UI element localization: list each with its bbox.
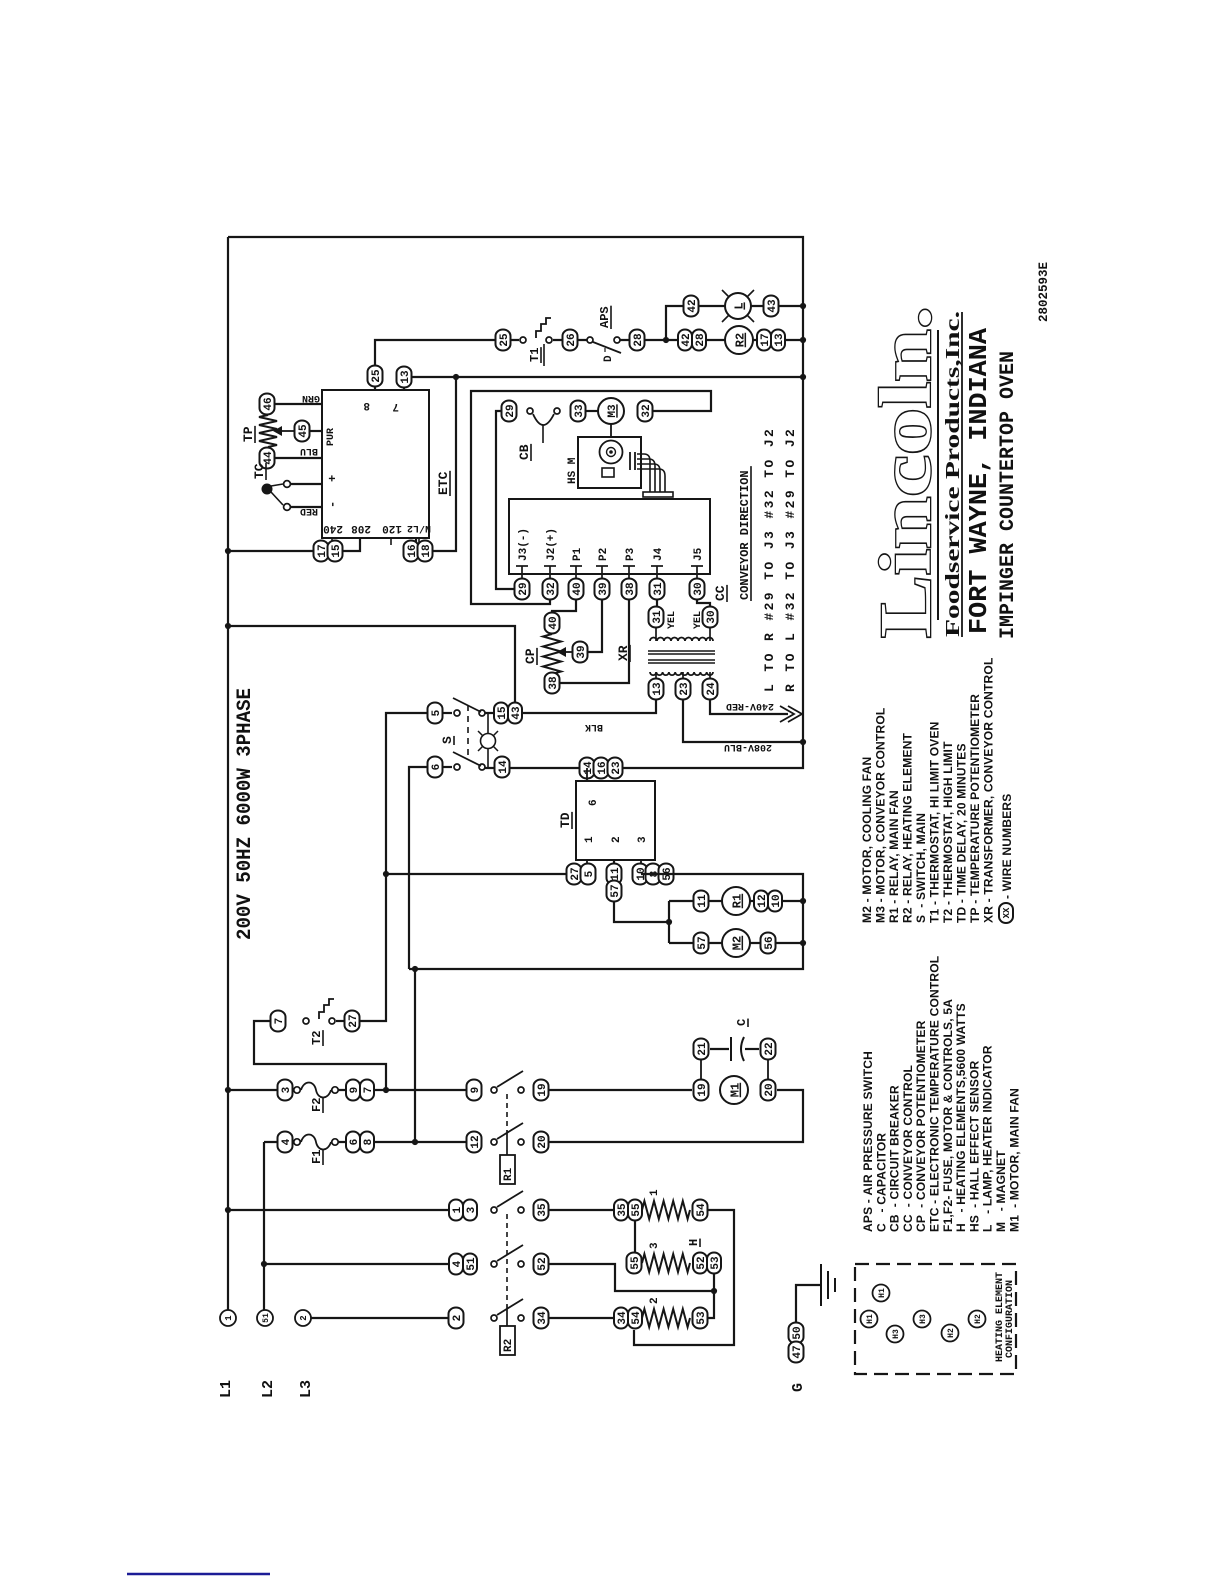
terminal box 11 TD (607, 864, 622, 885)
hall sensor chip (602, 468, 614, 477)
wire cap 22 right (745, 1048, 759, 1050)
R2 row1 boxes (449, 1200, 463, 1221)
svg-text:5: 5 (431, 709, 443, 716)
svg-text:38: 38 (548, 676, 560, 690)
wire 26 to APS (553, 339, 587, 341)
terminal box 29 under CC pin J3(-) (515, 579, 530, 600)
terminal box 40 under CC pin P1 (569, 579, 584, 600)
svg-text:240: 240 (323, 522, 343, 534)
junction T2 F2 (383, 1087, 389, 1093)
svg-text:43: 43 (767, 299, 779, 313)
wire R2 row2 from L2 (264, 1263, 449, 1265)
svg-text:T1 - THERMOSTAT, HI LIMIT OVEN: T1 - THERMOSTAT, HI LIMIT OVEN (928, 721, 942, 923)
R1 contact row2 box (467, 1132, 482, 1153)
terminal box 14 (495, 757, 510, 778)
svg-text:35: 35 (537, 1203, 549, 1217)
terminal box 15 (328, 541, 343, 562)
terminal boxes 27 5 (567, 864, 582, 885)
svg-text:H1: H1 (878, 1288, 887, 1298)
fuse F1 (294, 1139, 300, 1145)
svg-text:T2: T2 (310, 1031, 324, 1045)
terminal box 32 under CC pin J2(+) (543, 579, 558, 600)
R2 row3 box (449, 1308, 464, 1329)
heating element 1 (642, 1201, 690, 1219)
svg-text:N/L2: N/L2 (407, 522, 431, 534)
R1 row2 blade (497, 1123, 523, 1139)
R1 row1 blade (497, 1071, 523, 1087)
terminal box 22 (761, 1039, 776, 1060)
thermostat T1 contacts (520, 337, 526, 343)
wire CC 38 to CP bottom (560, 599, 629, 683)
terminal box 46 (260, 394, 275, 415)
wire L1 to switch 15/43 (228, 626, 515, 707)
svg-text:12: 12 (470, 1135, 482, 1148)
svg-text:30: 30 (693, 582, 705, 595)
svg-text:CONFIGURATION: CONFIGURATION (1005, 1280, 1016, 1358)
svg-text:R1 - RELAY, MAIN FAN: R1 - RELAY, MAIN FAN (887, 790, 901, 923)
CC pin P1 (570, 565, 582, 567)
wire S6 to return bus (409, 767, 428, 969)
svg-text:H2: H2 (947, 1328, 956, 1338)
thermostat T1 stair symbol (536, 318, 551, 338)
svg-text:57: 57 (697, 936, 709, 949)
svg-text:TC: TC (252, 463, 267, 479)
junction rail 17/15 (225, 548, 231, 554)
svg-text:30: 30 (706, 610, 718, 623)
S mechanical link dashed (467, 705, 469, 760)
heating element 2 (642, 1309, 690, 1327)
ETC pin tick 120 (390, 538, 392, 545)
ETC pin tick N/L2 (418, 538, 420, 545)
potentiometer TP zigzag (259, 415, 277, 447)
svg-text:2: 2 (452, 1315, 464, 1322)
svg-text:18: 18 (421, 544, 433, 558)
svg-text:2: 2 (649, 1297, 661, 1304)
svg-text:31: 31 (653, 582, 665, 596)
R1 row2 contacts (491, 1139, 497, 1145)
thermostat T1 probe tick (543, 344, 545, 366)
svg-text:6: 6 (431, 764, 443, 771)
svg-text:46: 46 (263, 397, 275, 410)
wire ETC N/L2 pin to terminals 16 18 (404, 538, 416, 551)
blue footer line (127, 1573, 270, 1576)
svg-text:7: 7 (363, 1087, 375, 1094)
config circle H2 (942, 1325, 959, 1342)
svg-text:11: 11 (610, 867, 622, 881)
R2 link dashed (506, 1214, 508, 1305)
svg-text:120: 120 (382, 522, 402, 534)
svg-text:56: 56 (764, 936, 776, 949)
wire BLU terminal44 to ETC (275, 457, 322, 459)
junction M2 row return (800, 940, 806, 946)
svg-text:51: 51 (262, 1313, 271, 1323)
element2 boxes 34 54 (614, 1308, 628, 1329)
svg-text:R2: R2 (503, 1339, 515, 1352)
R1 row1 contacts (491, 1087, 497, 1093)
CP wiper arrow (557, 647, 566, 657)
transformer XR primary coil (650, 638, 713, 641)
wire top border to right-side bus (228, 237, 803, 768)
svg-text:CB: CB (517, 444, 532, 460)
wire R2 row1 from rail (228, 1209, 449, 1211)
switch S terminal box 5 (428, 703, 443, 724)
CC pin J3(-) (516, 565, 528, 567)
svg-text:51: 51 (466, 1257, 478, 1271)
S pole1 contacts (454, 710, 460, 716)
svg-text:XX: XX (1002, 907, 1012, 918)
S pole2 contacts (454, 764, 460, 770)
svg-text:CP: CP (523, 648, 538, 664)
svg-text:13: 13 (400, 370, 412, 384)
terminal box 40 CP (545, 613, 560, 634)
wire 5 to contact (443, 712, 452, 714)
svg-text:3: 3 (281, 1086, 293, 1093)
junction rail 626 (225, 623, 231, 629)
wire lamp branch (666, 306, 803, 340)
thermostat T2 stair symbol (319, 999, 334, 1019)
wire XR24 240V-RED (710, 699, 788, 714)
svg-text:M2 - MOTOR, COOLING FAN: M2 - MOTOR, COOLING FAN (860, 757, 874, 923)
R2 row2 out box (534, 1254, 549, 1275)
svg-text:1: 1 (584, 836, 596, 843)
svg-text:J2(+): J2(+) (546, 528, 558, 561)
terminal box 26 (563, 330, 578, 351)
svg-text:- WIRE NUMBERS: - WIRE NUMBERS (1000, 794, 1014, 899)
R2 row1 contacts (491, 1207, 497, 1213)
terminal box 43 (764, 296, 779, 317)
wire ETC pin7 net 13 (404, 377, 803, 390)
svg-text:3: 3 (637, 836, 649, 843)
svg-text:L2: L2 (260, 1380, 277, 1398)
svg-text:42: 42 (687, 299, 699, 312)
terminal box 31 under CC pin J4 (650, 579, 665, 600)
terminal box 17 (314, 541, 329, 562)
svg-text:19: 19 (697, 1083, 709, 1096)
wire 53 link (708, 1274, 714, 1318)
terminal box 39 under CC pin P2 (595, 579, 610, 600)
svg-text:P1: P1 (572, 547, 584, 561)
svg-text:5: 5 (584, 870, 596, 877)
svg-text:APS - AIR PRESSURE SWITCH: APS - AIR PRESSURE SWITCH (861, 1051, 875, 1232)
svg-text:1: 1 (224, 1315, 234, 1321)
CC pin P3 (623, 565, 635, 567)
motor M1 main fan (720, 1076, 748, 1104)
wire 52 to element3 (548, 1264, 714, 1291)
R2 row2 blade (497, 1245, 523, 1261)
terminal box 31 XR (649, 607, 664, 628)
svg-text:IMPINGER COUNTERTOP OVEN: IMPINGER COUNTERTOP OVEN (997, 351, 1020, 639)
wire XR 30 stub (709, 628, 711, 641)
HS ribbon wires (637, 454, 650, 492)
wire M3 to HS box (610, 424, 612, 437)
svg-text:H1: H1 (866, 1314, 875, 1324)
element1 box 54 (693, 1200, 708, 1221)
svg-text:25: 25 (371, 369, 383, 383)
svg-text:57: 57 (610, 884, 622, 897)
wire 21 down to 19 (700, 1059, 702, 1080)
svg-text:F1: F1 (310, 1150, 324, 1164)
svg-text:13: 13 (774, 333, 786, 347)
wire 6 to contact (443, 766, 452, 768)
terminal circle 51 (L2) (257, 1310, 273, 1326)
terminal box 47 G (789, 1342, 804, 1363)
svg-text:14: 14 (498, 760, 510, 774)
svg-text:L1: L1 (218, 1380, 235, 1398)
relay R2 label box (500, 1326, 515, 1355)
element3 boxes 52 53 (693, 1253, 707, 1274)
svg-text:43: 43 (511, 706, 523, 720)
svg-text:2: 2 (299, 1315, 309, 1320)
svg-text:11: 11 (697, 894, 709, 908)
fuse F2 (294, 1087, 300, 1093)
S pilot lamp (481, 734, 496, 749)
svg-text:53: 53 (696, 1311, 708, 1325)
svg-text:8: 8 (363, 1138, 375, 1145)
wire TD1 to T2 line (386, 873, 566, 875)
svg-text:7: 7 (392, 400, 399, 412)
terminal box 30 XR (703, 607, 718, 628)
junction rail R2row1 (225, 1207, 231, 1213)
heating element configuration box (855, 1264, 1016, 1374)
relay R1 label box (500, 1155, 515, 1184)
terminal box 27 T2 (345, 1011, 360, 1032)
wire 35 to element1 (548, 1209, 614, 1211)
svg-text:APS: APS (598, 306, 612, 328)
svg-text:P3: P3 (625, 547, 637, 561)
svg-text:H3: H3 (892, 1329, 901, 1339)
svg-text:23: 23 (611, 761, 623, 775)
wire XR23 208V-BLU (683, 699, 803, 742)
terminal circle 1 (L1) (220, 1310, 236, 1326)
HS connector bars (629, 452, 631, 470)
svg-text:GRN: GRN (302, 392, 320, 403)
svg-text:T2 - THERMOSTAT, HIGH LIMIT: T2 - THERMOSTAT, HIGH LIMIT (941, 741, 955, 923)
ETC pin tick 240 (331, 538, 333, 545)
terminal circle 2 (L3) (295, 1310, 311, 1326)
junction F1 riser (412, 1139, 418, 1145)
svg-text:S: S (440, 736, 455, 744)
svg-text:28: 28 (633, 333, 645, 347)
transformer XR secondary coil (650, 672, 713, 675)
svg-text:HS - HALL EFFECT SENSOR: HS - HALL EFFECT SENSOR (967, 1060, 981, 1232)
svg-text:40: 40 (548, 616, 560, 629)
junction heat branch split (663, 337, 669, 343)
svg-text:R TO L #32 TO J3 #29 TO J2: R TO L #32 TO J3 #29 TO J2 (783, 427, 798, 692)
svg-text:-: - (326, 501, 340, 508)
wire 27 up to S5 and TD tap (360, 713, 428, 1021)
S pole2 blade (453, 752, 481, 766)
svg-text:G: G (790, 1383, 807, 1392)
terminal boxes 9 7 F2 (346, 1080, 360, 1101)
terminal box 38 CP (545, 673, 560, 694)
svg-text:8: 8 (363, 399, 370, 411)
config circle H1 (861, 1311, 878, 1328)
svg-text:CB - CIRCUIT BREAKER: CB - CIRCUIT BREAKER (888, 1085, 902, 1232)
svg-text:27: 27 (348, 1014, 360, 1027)
svg-text:54: 54 (631, 1311, 643, 1325)
terminal box 19 M1 (694, 1080, 709, 1101)
terminal box 25 on ETC pin 8 (368, 366, 383, 387)
terminal box 56 M2 (761, 933, 776, 954)
HS sensor box (578, 437, 641, 488)
terminal box 39 CP (573, 642, 588, 663)
terminal boxes 42 28 R2coil (678, 330, 692, 351)
svg-text:HS M: HS M (567, 457, 579, 484)
wire ETC 208 pin to terminals 17 15 to L1 rail (228, 538, 360, 551)
terminal box 4 F1 (278, 1132, 293, 1153)
svg-text:22: 22 (764, 1042, 776, 1055)
terminal box 50 G (789, 1323, 804, 1344)
wire F1 row (264, 1141, 296, 1143)
svg-text:1: 1 (649, 1189, 661, 1196)
wire 33 to M3 (586, 410, 598, 412)
svg-text:R2 - RELAY, HEATING ELEMENT: R2 - RELAY, HEATING ELEMENT (901, 732, 915, 923)
R2 link solid (506, 1305, 508, 1326)
wire T2 loop (254, 1021, 386, 1090)
R1 link dashed (506, 1094, 508, 1130)
svg-text:R1: R1 (503, 1167, 515, 1181)
terminal boxes 15 43 (494, 703, 508, 724)
svg-text:L3: L3 (298, 1380, 315, 1398)
junction R2coil row right (800, 337, 806, 343)
svg-text:J4: J4 (653, 547, 665, 561)
svg-text:CP - CONVEYOR POTENTIOMETER: CP - CONVEYOR POTENTIOMETER (914, 1020, 928, 1232)
wire elem1 to elem2 loop (634, 1210, 734, 1345)
terminal boxes 14 16 23 (580, 758, 595, 779)
wire F1 riser to return (414, 969, 416, 1142)
svg-text:F1,F2- FUSE, MOTOR & CONTROLS,: F1,F2- FUSE, MOTOR & CONTROLS, 5A (941, 999, 955, 1232)
terminal box 3 F2 (278, 1080, 293, 1101)
svg-text:20: 20 (537, 1135, 549, 1148)
terminal box 7 T2 (271, 1011, 286, 1032)
terminal box 24 XR (703, 679, 718, 700)
wire 55 link (634, 1221, 636, 1253)
wire CC31 to XR31 (656, 599, 658, 607)
wire cap 21 left (710, 1048, 729, 1050)
R2 row1 blade (497, 1191, 523, 1207)
junction R1 row return (800, 898, 806, 904)
terminal box 20 M1 (761, 1080, 776, 1101)
svg-text:19: 19 (537, 1083, 549, 1096)
terminal boxes 6 8 F1 (346, 1132, 360, 1153)
R2 row2 contacts (491, 1261, 497, 1267)
svg-text:45: 45 (298, 424, 310, 438)
switch S terminal box 6 (428, 757, 443, 778)
svg-text:44: 44 (263, 451, 275, 465)
svg-text:S - SWITCH, MAIN: S - SWITCH, MAIN (914, 813, 928, 923)
svg-text:33: 33 (574, 404, 586, 418)
wire R1 coil row (669, 900, 803, 902)
svg-text:24: 24 (706, 682, 718, 696)
wire CB29 to CC J3- (496, 411, 515, 589)
foodservice strike line (961, 312, 963, 637)
svg-text:55: 55 (631, 1203, 643, 1217)
element1 boxes 35 55 (614, 1200, 628, 1221)
air pressure switch APS contacts (587, 337, 593, 343)
magnet M symbol (600, 441, 623, 464)
wire 56 to coil return bus (409, 874, 803, 969)
terminal box 18 (418, 541, 433, 562)
terminal box 42 lamp (684, 296, 699, 317)
svg-text:TD: TD (558, 812, 573, 828)
svg-text:26: 26 (566, 333, 578, 346)
APS blade (593, 342, 621, 353)
terminal box 25b (496, 330, 511, 351)
junction 208V-BLU bus (800, 739, 806, 745)
junction net13/net16 (453, 374, 459, 380)
junction TD2 to coils (666, 919, 672, 925)
circuit breaker CB row (527, 408, 533, 414)
CC pin P2 (596, 565, 608, 567)
svg-text:29: 29 (518, 582, 530, 595)
svg-text:34: 34 (537, 1311, 549, 1325)
svg-text:TP - TEMPERATURE POTENTIOMETER: TP - TEMPERATURE POTENTIOMETER (968, 694, 982, 923)
svg-text:C - CAPACITOR: C - CAPACITOR (874, 1133, 888, 1232)
svg-text:YEL: YEL (667, 611, 678, 629)
terminal box 57 TD (607, 881, 622, 902)
wire L1 rail left border (227, 237, 229, 1310)
svg-text:J3(-): J3(-) (518, 528, 530, 561)
svg-text:15: 15 (331, 544, 343, 558)
svg-text:H2: H2 (974, 1314, 983, 1324)
svg-text:6: 6 (588, 799, 600, 806)
terminal box 23 XR (676, 679, 691, 700)
R1 contact row1 boxes (467, 1080, 482, 1101)
svg-text:M1 - MOTOR, MAIN FAN: M1 - MOTOR, MAIN FAN (1007, 1088, 1021, 1232)
svg-text:38: 38 (625, 582, 637, 596)
svg-text:CC: CC (713, 585, 728, 601)
terminal box 13 on ETC pin 7 (397, 367, 412, 388)
wire L2 riser (263, 1142, 265, 1310)
svg-text:25: 25 (499, 333, 511, 347)
terminal box 45 (295, 421, 310, 442)
terminal box 16 (404, 541, 419, 562)
svg-text:H3: H3 (919, 1314, 928, 1324)
heating element 3 (642, 1254, 690, 1272)
svg-text:2802593E: 2802593E (1037, 262, 1051, 322)
thermocouple TC (262, 484, 273, 495)
connector plug J1 (643, 492, 673, 497)
wire coil rows left link (668, 901, 670, 943)
wire 34 to element2 (548, 1317, 614, 1319)
wire CC30 to XR30 (697, 599, 710, 607)
svg-text:M3 - MOTOR, CONVEYOR CONTROL: M3 - MOTOR, CONVEYOR CONTROL (874, 708, 888, 923)
time delay TD block (576, 781, 655, 860)
terminal box 32 M3 (638, 401, 653, 422)
config circle H1 (873, 1285, 890, 1302)
wire CC 40 to CP (552, 599, 576, 615)
logo underline (937, 330, 939, 620)
junction rail F2 (225, 1087, 231, 1093)
wire 22 down to 20 (767, 1059, 769, 1080)
terminal box 38 under CC pin P3 (622, 579, 637, 600)
transformer XR core (648, 650, 715, 652)
svg-text:2: 2 (611, 836, 623, 843)
wire ETC pin8 to terminal 25 row (375, 340, 519, 390)
svg-text:C: C (735, 1019, 749, 1026)
svg-text:208: 208 (351, 522, 371, 534)
junction lamp row right (800, 303, 806, 309)
svg-text:CC - CONVEYOR CONTROL: CC - CONVEYOR CONTROL (901, 1065, 915, 1232)
wire GRN terminal46 to ETC (275, 403, 322, 405)
svg-text:40: 40 (572, 582, 584, 595)
relay coil R2 (725, 326, 753, 354)
svg-text:TD - TIME DELAY, 20 MINUTES: TD - TIME DELAY, 20 MINUTES (955, 743, 969, 923)
svg-text:32: 32 (546, 582, 558, 595)
element3 box 55 (627, 1253, 642, 1274)
wire J2+ feed loop (471, 391, 711, 604)
R2 row2 boxes (449, 1254, 463, 1275)
